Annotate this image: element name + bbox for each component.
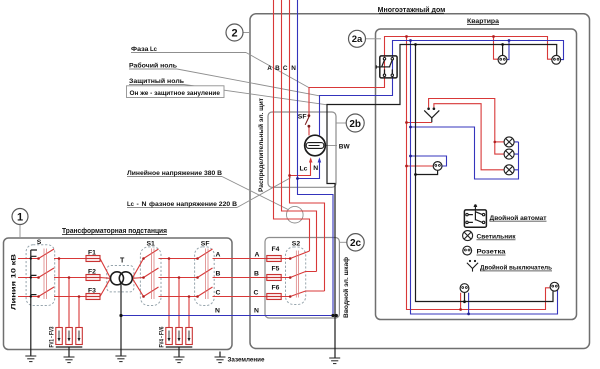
svg-text:Рабочий ноль: Рабочий ноль bbox=[129, 61, 177, 69]
svg-text:фазное напряжение 220 В: фазное напряжение 220 В bbox=[149, 201, 237, 208]
svg-text:FV4 - FV6: FV4 - FV6 bbox=[160, 326, 166, 348]
svg-text:F2: F2 bbox=[88, 268, 96, 275]
svg-text:Защитный ноль: Защитный ноль bbox=[129, 77, 184, 85]
svg-text:F6: F6 bbox=[272, 285, 280, 292]
svg-text:Многоэтажный дом: Многоэтажный дом bbox=[378, 6, 446, 14]
svg-text:SF: SF bbox=[201, 241, 210, 248]
svg-text:F5: F5 bbox=[272, 265, 280, 272]
svg-text:Lc: Lc bbox=[127, 201, 134, 208]
svg-text:F1: F1 bbox=[88, 249, 96, 256]
svg-text:Розетка: Розетка bbox=[477, 249, 506, 256]
svg-text:C: C bbox=[216, 290, 221, 297]
svg-text:BW: BW bbox=[339, 143, 351, 150]
svg-text:A: A bbox=[267, 65, 272, 72]
svg-text:C: C bbox=[283, 65, 288, 72]
svg-text:Он же - защитное зануление: Он же - защитное зануление bbox=[130, 90, 221, 97]
svg-text:N: N bbox=[291, 65, 296, 72]
svg-text:A: A bbox=[216, 251, 221, 258]
svg-text:Двойной автомат: Двойной автомат bbox=[490, 214, 547, 222]
svg-text:Lc: Lc bbox=[150, 46, 157, 53]
svg-text:N: N bbox=[142, 201, 147, 208]
svg-text:Двойной выключатель: Двойной выключатель bbox=[480, 264, 552, 272]
svg-text:Распределительный эл. щит: Распределительный эл. щит bbox=[257, 97, 265, 192]
svg-text:2c: 2c bbox=[350, 238, 362, 249]
svg-text:N: N bbox=[313, 165, 318, 172]
svg-text:-: - bbox=[137, 201, 139, 208]
svg-text:2b: 2b bbox=[349, 119, 361, 130]
svg-text:F4: F4 bbox=[272, 246, 280, 253]
svg-text:1: 1 bbox=[17, 212, 23, 224]
svg-text:Линейное напряжение 380 В: Линейное напряжение 380 В bbox=[127, 169, 222, 177]
svg-text:FV1 - FV3: FV1 - FV3 bbox=[50, 326, 56, 348]
svg-text:Lc: Lc bbox=[300, 166, 308, 173]
svg-text:Светильник: Светильник bbox=[477, 234, 517, 241]
svg-text:Фаза: Фаза bbox=[131, 46, 149, 53]
svg-text:Квартира: Квартира bbox=[467, 18, 499, 25]
svg-text:Заземление: Заземление bbox=[228, 357, 265, 364]
svg-text:Трансформаторная подстанция: Трансформаторная подстанция bbox=[62, 228, 167, 235]
svg-text:B: B bbox=[254, 271, 259, 278]
svg-text:2: 2 bbox=[231, 28, 237, 40]
svg-text:Линия 10 кВ: Линия 10 кВ bbox=[11, 253, 18, 310]
svg-text:2a: 2a bbox=[352, 34, 363, 45]
svg-text:Вводной эл. шкаф: Вводной эл. шкаф bbox=[342, 257, 350, 318]
svg-text:F3: F3 bbox=[88, 288, 96, 295]
svg-text:Т: Т bbox=[120, 258, 125, 265]
svg-text:N: N bbox=[254, 308, 259, 315]
svg-text:S: S bbox=[37, 239, 42, 246]
svg-text:N: N bbox=[215, 308, 220, 315]
svg-text:S2: S2 bbox=[292, 240, 301, 247]
svg-text:A: A bbox=[255, 251, 260, 258]
svg-text:B: B bbox=[275, 65, 280, 72]
svg-text:S1: S1 bbox=[147, 241, 156, 248]
svg-text:B: B bbox=[216, 271, 221, 278]
svg-text:SF: SF bbox=[298, 114, 307, 121]
svg-text:C: C bbox=[254, 290, 259, 297]
